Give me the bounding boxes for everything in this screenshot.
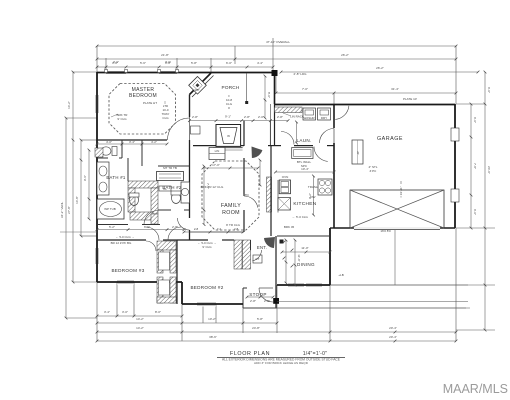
gallery hatch wall (267, 177, 272, 212)
kitchen right counter (318, 179, 332, 195)
svg-text:14'-8": 14'-8" (75, 196, 79, 204)
bedroom2 south wall (182, 303, 243, 305)
bath1 vanity (97, 162, 109, 195)
ent west walls (250, 240, 252, 250)
master door leaf+arc (189, 117, 191, 140)
bedroom3 south wall (97, 281, 182, 283)
left site line (60, 231, 97, 233)
interior dims stoop (247, 296, 273, 298)
dining south wall (277, 284, 330, 286)
svg-text:20'-4": 20'-4" (389, 326, 397, 330)
dim ext right (456, 103, 485, 105)
svg-text:5'-8": 5'-8" (257, 317, 263, 321)
svg-text:9'-6": 9'-6" (83, 175, 87, 181)
window master top 1 (106, 70, 126, 72)
exterior wall laundry+garage north (275, 104, 456, 106)
dim line 21-8 / 26-2 (97, 58, 456, 60)
svg-text:ROOM: ROOM (222, 210, 240, 216)
window dining south (288, 282, 304, 284)
bed3 north wall (97, 239, 146, 241)
dim right overall (484, 72, 486, 330)
garage west wall (333, 104, 335, 128)
master diagonal corner wall (190, 73, 212, 95)
svg-text:AT: AT (356, 151, 360, 155)
bath2 toilet (172, 193, 181, 204)
stoop outline (243, 307, 277, 309)
svg-text:9' CLG: 9' CLG (202, 245, 212, 249)
laundry south wall (268, 145, 281, 147)
svg-text:6'-0": 6'-0" (226, 61, 232, 65)
gallery door wedge (252, 147, 263, 159)
bath2 north wall (158, 165, 190, 167)
svg-text:ENT.: ENT. (257, 245, 267, 250)
corner fireplace diamond (189, 77, 207, 95)
svg-text:2'-8" LDG: 2'-8" LDG (294, 72, 308, 76)
svg-text:TRASH: TRASH (308, 185, 318, 189)
svg-text:LIN: LIN (215, 149, 220, 153)
master east wall upper (189, 95, 191, 118)
svg-text:DINING: DINING (297, 262, 315, 267)
svg-text:5'-6": 5'-6" (140, 61, 146, 65)
fireplace box (216, 125, 241, 147)
hall dim chain (97, 229, 184, 231)
front wall jog (181, 282, 183, 304)
svg-text:BEDROOM #2: BEDROOM #2 (190, 285, 223, 290)
interior dims bath2 v (203, 166, 205, 225)
window master west (94, 95, 96, 113)
svg-text:BATH #2: BATH #2 (162, 185, 182, 190)
family tray ceiling dashed octagon (202, 161, 259, 230)
svg-text:KITCHEN: KITCHEN (293, 201, 316, 207)
front door arc (259, 288, 273, 302)
garage south wall (334, 227, 455, 229)
bed2 door arc (168, 227, 181, 240)
svg-text:LAUN.: LAUN. (296, 138, 311, 143)
west exterior wall (96, 72, 98, 282)
shower hatched bottom (130, 212, 153, 220)
svg-text:9'-1": 9'-1" (225, 115, 231, 119)
svg-text:16'0 8'0: 16'0 8'0 (380, 229, 391, 233)
bed2 closet hatched (234, 240, 242, 269)
svg-text:8'-6": 8'-6" (267, 92, 271, 98)
dining north wall (277, 235, 330, 237)
dim line garage top (276, 92, 456, 94)
svg-text:2'-8": 2'-8" (250, 299, 256, 303)
ent door arc (252, 250, 261, 261)
svg-text:21'-8": 21'-8" (161, 53, 169, 57)
svg-text:11'-6": 11'-6" (297, 254, 301, 261)
kitchen pantry cab (292, 148, 313, 159)
dim ext left (66, 117, 97, 119)
svg-text:FAMILY: FAMILY (221, 203, 241, 209)
svg-text:MT TR TB: MT TR TB (163, 166, 177, 170)
svg-text:2'-8": 2'-8" (192, 115, 198, 119)
svg-text:2'-8": 2'-8" (264, 299, 270, 303)
bed2 north wall (177, 239, 208, 241)
bed2 west wall (176, 240, 178, 304)
window bedroom2 south (197, 301, 216, 303)
dim line small top-left (97, 66, 273, 68)
svg-text:4'-2": 4'-2" (151, 140, 157, 144)
bed3 closet hatched right (170, 250, 176, 273)
kitchen range x (278, 198, 291, 211)
bath1 toilet2 (130, 195, 139, 206)
svg-text:CLG: CLG (162, 116, 169, 120)
window master top 2 (159, 70, 177, 72)
laundry door arc (281, 132, 294, 145)
family west wall (189, 140, 191, 218)
svg-text:BEDROOM: BEDROOM (129, 93, 157, 99)
bath1 hatch nook (95, 148, 103, 157)
svg-text:7'-8": 7'-8" (473, 163, 477, 169)
interior dims porch v (264, 76, 266, 118)
dim right garage (470, 104, 472, 228)
svg-text:← 5'-0 CLG: ← 5'-0 CLG (292, 215, 308, 219)
dim ext bottom (96, 282, 98, 341)
svg-text:W: W (227, 134, 230, 138)
svg-text:26'-2": 26'-2" (341, 53, 349, 57)
hall north wall (97, 224, 128, 226)
bath1 wp tub (97, 199, 124, 219)
svg-text:3'-0": 3'-0" (165, 60, 171, 64)
svg-text:17'-0": 17'-0" (212, 163, 220, 167)
garage east wall (454, 104, 456, 228)
title underline (217, 357, 345, 359)
family east wall (243, 121, 245, 146)
svg-text:3'-4": 3'-4" (129, 140, 135, 144)
stoop post (273, 298, 279, 304)
family north wall stubs (193, 145, 216, 147)
svg-text:3'-4": 3'-4" (104, 310, 110, 314)
svg-text:4'-0": 4'-0" (106, 140, 112, 144)
svg-text:PLATE HT: PLATE HT (143, 101, 157, 105)
svg-text:6'-6": 6'-6" (473, 209, 477, 215)
laundry gallery line (269, 104, 271, 121)
front walk lines (330, 284, 468, 286)
svg-text:2-8: 2-8 (194, 227, 199, 231)
wc walls (121, 140, 123, 158)
svg-text:14'-2": 14'-2" (136, 326, 144, 330)
svg-text:11'-0": 11'-0" (301, 246, 308, 250)
bed3 closet hatched top (157, 241, 176, 250)
dim left 3 (80, 140, 82, 236)
kitchen cabinet line (277, 180, 279, 213)
svg-text:2'-8": 2'-8" (277, 115, 283, 119)
ent kitchen post (280, 240, 284, 244)
bed3 closet2 shelf (159, 280, 170, 295)
svg-text:7'-0": 7'-0" (302, 87, 308, 91)
ent door wedge (264, 237, 275, 248)
svg-text:LIN RACK: LIN RACK (290, 115, 304, 119)
svg-text:10'-4": 10'-4" (301, 167, 309, 171)
linen (209, 148, 225, 160)
wc toilet (101, 147, 111, 155)
bath2 south wall (158, 209, 171, 211)
bath2 vanity (181, 182, 190, 203)
kitchen ovens (279, 180, 290, 194)
svg-text:← 5-0 CLG →: ← 5-0 CLG → (115, 235, 134, 239)
svg-text:8'-0": 8'-0" (155, 310, 161, 314)
svg-text:FLOOR PLAN: FLOOR PLAN (230, 351, 270, 357)
svg-text:WASHR: WASHR (303, 116, 315, 120)
svg-text:WP TUB: WP TUB (104, 207, 116, 211)
svg-text:MAAR/MLS: MAAR/MLS (443, 382, 508, 396)
svg-text:BR 12 # PF BG: BR 12 # PF BG (111, 241, 132, 245)
shower hatched right (151, 188, 158, 214)
svg-text:47'-10" OVERALL: 47'-10" OVERALL (266, 40, 290, 44)
svg-text:± 19'-11": ± 19'-11" (399, 186, 403, 198)
svg-text:CT: CT (256, 257, 260, 261)
svg-text:OVN: OVN (282, 175, 289, 179)
svg-text:BEDROOM #3: BEDROOM #3 (111, 268, 144, 273)
garage entry door arc (335, 106, 349, 120)
bath2 tub (157, 172, 184, 181)
svg-text:GARAGE: GARAGE (377, 136, 403, 142)
svg-text:5'-8": 5'-8" (191, 61, 197, 65)
bed3 closet hatched left (157, 250, 163, 273)
svg-text:14'-2": 14'-2" (67, 101, 71, 109)
svg-text:PLATE 10': PLATE 10' (403, 97, 417, 101)
hearth line (213, 147, 243, 149)
family opening header (190, 231, 244, 233)
bath1/2 divider hatched (128, 181, 158, 188)
porch column line (246, 73, 248, 102)
svg-text:1/4"=1'-0": 1/4"=1'-0" (303, 351, 328, 357)
master east wall niche (191, 126, 201, 134)
svg-text:7'-4": 7'-4" (206, 183, 210, 189)
svg-text:DW: DW (311, 195, 316, 199)
dim overall 47-10 top (97, 45, 456, 47)
svg-text:2'-0": 2'-0" (258, 115, 264, 119)
gallery east line (269, 121, 271, 146)
laundry lin rack hatched (275, 107, 303, 113)
svg-text:9' TR CLG: 9' TR CLG (226, 223, 241, 227)
svg-text:31'-4": 31'-4" (391, 87, 399, 91)
svg-text:9' CLG: 9' CLG (117, 117, 127, 121)
svg-text:3'-0": 3'-0" (113, 60, 119, 64)
svg-text:3'-0": 3'-0" (122, 310, 128, 314)
hall-family door arc (178, 218, 190, 230)
svg-text:DRY: DRY (321, 116, 327, 120)
dim line right offset (281, 71, 478, 73)
wall porch-east down (274, 76, 276, 104)
coat shelf (253, 255, 262, 263)
bed3 closet door arc (146, 241, 156, 251)
svg-text:2'-8": 2'-8" (244, 115, 250, 119)
dim left outer (65, 118, 67, 318)
svg-text:BATH #1: BATH #1 (106, 175, 126, 180)
svg-text:10'-2": 10'-2" (208, 317, 216, 321)
exterior wall top master+porch (97, 72, 273, 74)
kitchen vdim (313, 176, 315, 215)
svg-text:+LB: +LB (338, 273, 343, 277)
svg-text:6'-6": 6'-6" (487, 87, 491, 93)
kitchen west wall (270, 146, 272, 236)
bed3 closet2 hatched (157, 277, 163, 303)
kitchen dim 10-4 (276, 171, 335, 173)
bath2 door arc (144, 211, 158, 225)
washer dryer (303, 108, 316, 120)
bath1 inner wall (127, 158, 129, 181)
dim bottom 1 (97, 315, 182, 317)
dim left 4 (88, 150, 90, 219)
svg-text:26'-2": 26'-2" (376, 66, 384, 70)
interior dims bed2 v (294, 240, 296, 285)
hall hatch strip (151, 214, 158, 224)
dim bottom 2 (97, 322, 277, 324)
svg-text:4'-4": 4'-4" (257, 61, 263, 65)
dining east wall (329, 228, 331, 285)
svg-text:5'-2": 5'-2" (109, 225, 115, 229)
svg-text:34'-2" VENL: 34'-2" VENL (60, 202, 64, 219)
svg-text:ADD 3" FOR BRICK LEDGE AS REQD: ADD 3" FOR BRICK LEDGE AS REQD (254, 361, 309, 365)
interior dims family v (296, 122, 298, 143)
porch corner post (272, 70, 278, 76)
garage east door trim 1 (451, 128, 459, 141)
shower hatched left (128, 188, 135, 212)
garage door slab with X (350, 190, 444, 228)
window bedroom3 west (94, 248, 96, 264)
bath2 cl box (159, 186, 171, 191)
master tray ceiling dashed octagon (109, 84, 176, 135)
interior dims master (97, 143, 167, 145)
svg-text:14'-2": 14'-2" (136, 317, 144, 321)
bed3 door arc (146, 227, 159, 240)
svg-text:WP: WP (195, 88, 200, 92)
svg-text:BRK 45: BRK 45 (284, 225, 295, 229)
dim bottom 3 (97, 331, 456, 333)
svg-text:20'-4": 20'-4" (389, 335, 397, 339)
laundry west wall (274, 104, 276, 146)
dim extension lines top (96, 46, 98, 72)
dim left 2 (72, 72, 74, 282)
dim bottom 4 (97, 340, 456, 342)
garage east door trim 2 (451, 189, 459, 202)
svg-text:24'-6": 24'-6" (487, 166, 491, 174)
interior dims dining (285, 240, 287, 283)
svg-text:LTD: LTD (243, 193, 249, 197)
bed3 closet shelf (159, 252, 170, 270)
interior dims family h (203, 167, 258, 169)
svg-text:38'-6": 38'-6" (209, 335, 217, 339)
garage attic stair (352, 140, 363, 164)
master south wall (97, 139, 122, 141)
svg-text:6'-6": 6'-6" (473, 117, 477, 123)
window bedroom3 south (117, 279, 134, 281)
svg-text:27'-8": 27'-8" (67, 206, 71, 214)
svg-text:# PC: # PC (370, 169, 378, 173)
dining west wall (270, 236, 272, 285)
stoop east wall (275, 285, 277, 308)
svg-text:PORCH: PORCH (222, 85, 240, 90)
svg-text:STOOP: STOOP (249, 292, 267, 297)
svg-text:24'-8": 24'-8" (252, 326, 260, 330)
garage door opening (354, 227, 440, 229)
porch dim chain (190, 120, 289, 122)
